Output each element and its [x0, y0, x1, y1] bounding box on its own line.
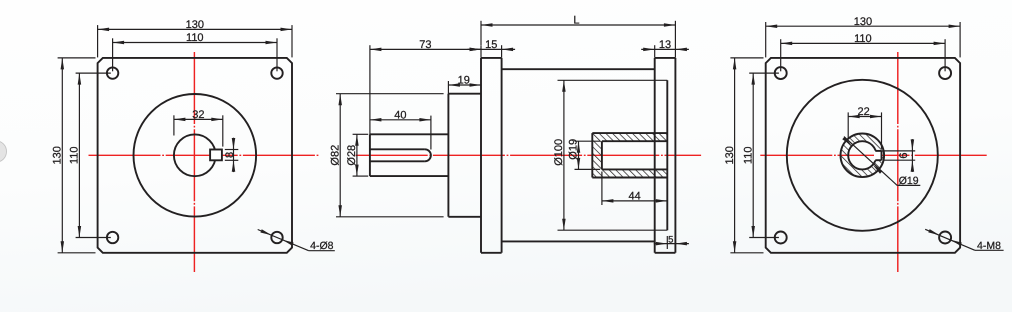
svg-text:8: 8 [224, 152, 236, 158]
svg-text:130: 130 [186, 19, 204, 31]
svg-text:40: 40 [394, 109, 406, 121]
svg-text:Ø19: Ø19 [899, 175, 919, 187]
svg-text:4-M8: 4-M8 [977, 240, 1001, 252]
svg-text:44: 44 [628, 191, 640, 203]
svg-text:130: 130 [724, 146, 736, 164]
svg-text:Ø82: Ø82 [329, 145, 341, 166]
svg-text:4-Ø8: 4-Ø8 [310, 240, 334, 252]
svg-text:6: 6 [898, 152, 910, 158]
svg-text:15: 15 [485, 39, 497, 51]
svg-text:22: 22 [857, 106, 869, 118]
svg-text:13: 13 [659, 39, 671, 51]
svg-text:Ø28: Ø28 [346, 145, 358, 166]
svg-text:5: 5 [668, 234, 673, 245]
svg-text:130: 130 [52, 146, 64, 164]
svg-text:110: 110 [742, 147, 754, 165]
svg-text:32: 32 [192, 109, 204, 121]
svg-text:110: 110 [854, 33, 872, 45]
svg-text:Ø100: Ø100 [553, 139, 565, 166]
svg-text:L: L [573, 15, 579, 27]
svg-text:19: 19 [458, 75, 470, 87]
svg-text:Ø19: Ø19 [568, 139, 580, 160]
svg-text:110: 110 [186, 32, 204, 44]
svg-text:130: 130 [854, 16, 872, 28]
svg-text:110: 110 [69, 147, 81, 165]
svg-text:73: 73 [419, 39, 431, 51]
